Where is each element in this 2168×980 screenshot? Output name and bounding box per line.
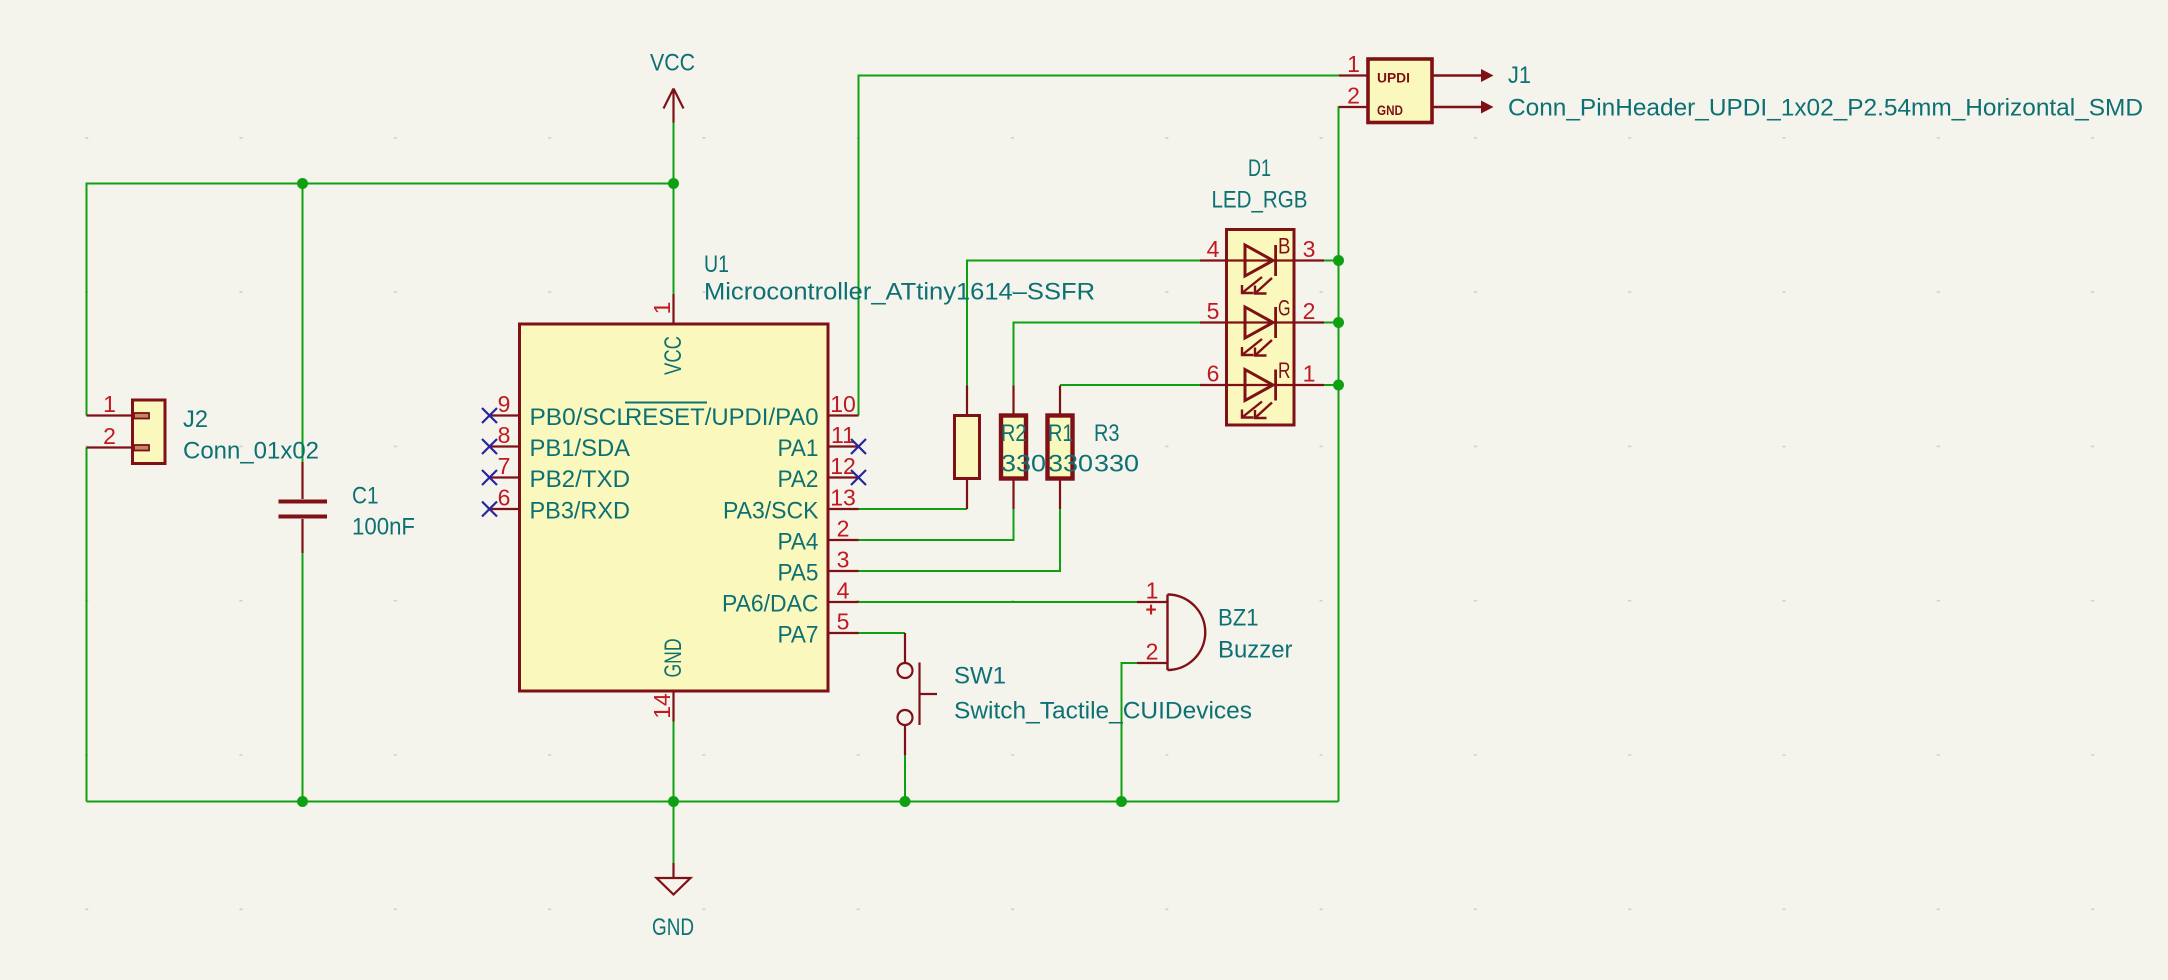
svg-text:G: G (1278, 296, 1291, 321)
svg-text:5: 5 (1207, 298, 1220, 324)
wire U1 pin5 PA7 to SW1 (859, 632, 906, 634)
wire U1 pin14 to GND (673, 722, 675, 802)
svg-text:R: R (1278, 358, 1291, 383)
svg-text:14: 14 (649, 693, 675, 719)
LED D1 body (1227, 230, 1295, 426)
svg-text:VCC: VCC (650, 50, 695, 77)
svg-text:2: 2 (1146, 639, 1159, 665)
svg-text:330: 330 (1048, 451, 1093, 478)
capacitor C1 (279, 462, 328, 553)
wire U1 pin4 PA6/DAC to BZ1 pin1 (859, 601, 1138, 603)
svg-text:R2: R2 (1001, 420, 1027, 447)
svg-text:Conn_01x02: Conn_01x02 (183, 438, 319, 465)
J1 output arrow top (1432, 74, 1481, 76)
junction C1/GND (297, 796, 308, 807)
svg-text:D1: D1 (1248, 155, 1271, 182)
svg-text:9: 9 (498, 391, 511, 417)
J1 pin 1 UPDI (1339, 74, 1368, 76)
J2 pin 1 (87, 414, 133, 416)
U1 pin 14 (GND, bottom) (672, 691, 674, 722)
svg-text:3: 3 (1303, 236, 1316, 262)
svg-text:+: + (1145, 600, 1156, 621)
svg-text:330: 330 (1001, 451, 1046, 478)
svg-text:PB0/SCL: PB0/SCL (530, 404, 631, 431)
no-connect X pin 9 (482, 408, 497, 423)
wire GND bottom horizontal (87, 801, 1339, 803)
wire R1 top to LED pin5 (G row) (1014, 323, 1201, 386)
junction BZ1/GND (1116, 796, 1127, 807)
svg-text:PA7: PA7 (778, 622, 819, 649)
svg-text:U1: U1 (704, 251, 729, 278)
no-connect X pin 8 (482, 439, 497, 454)
svg-text:UPDI: UPDI (1377, 70, 1410, 86)
J1 pin 2 GND (1339, 106, 1368, 108)
svg-text:7: 7 (498, 453, 511, 479)
svg-text:3: 3 (837, 547, 850, 573)
svg-text:J1: J1 (1508, 62, 1531, 89)
svg-text:RESET/UPDI/PA0: RESET/UPDI/PA0 (625, 404, 819, 431)
junction VCC (668, 178, 679, 189)
wire U1 pin2 PA4 to R1 (859, 509, 1014, 540)
svg-text:1: 1 (103, 391, 116, 417)
svg-text:PA5: PA5 (778, 560, 819, 587)
svg-text:GND: GND (652, 914, 694, 941)
junction LED G/GND (1333, 317, 1344, 328)
power symbol VCC (664, 89, 684, 123)
svg-text:330: 330 (1094, 451, 1139, 478)
wire U1 pin10 UPDI up and right to J1 pin1 (859, 76, 1369, 416)
svg-text:13: 13 (830, 485, 856, 511)
svg-text:VCC: VCC (660, 336, 687, 375)
wire R2 top to LED pin4 (B row) (967, 261, 1200, 386)
wire C1 bottom branch (302, 553, 304, 802)
wire LED pin1 to right vertical (1324, 384, 1339, 386)
connector J1 body (1368, 59, 1432, 123)
U1 pin 9 PB0/SCL (490, 414, 520, 416)
no-connect X pin 6 (482, 502, 497, 517)
junction C1/VCC (297, 178, 308, 189)
U1 pin 1 (VCC, top) (672, 294, 674, 324)
buzzer BZ1 (1168, 595, 1206, 671)
svg-text:R1: R1 (1048, 420, 1074, 447)
svg-text:11: 11 (831, 422, 855, 448)
svg-text:8: 8 (498, 422, 511, 448)
svg-text:PB2/TXD: PB2/TXD (530, 466, 631, 493)
U1 pin 10 RESET/UPDI/PA0 (828, 414, 859, 416)
wire SW1 bottom to GND (904, 755, 906, 802)
svg-text:2: 2 (103, 423, 116, 449)
svg-text:SW1: SW1 (954, 663, 1006, 690)
wire right vertical GND (J1 pin2 down) (1339, 107, 1369, 802)
svg-text:Buzzer: Buzzer (1218, 637, 1293, 664)
resistor R1 body (1012, 386, 1014, 416)
wire BZ1 pin2 down to GND (1122, 663, 1138, 802)
svg-text:PA4: PA4 (778, 529, 819, 556)
wire VCC left vertical to J2 pin1 (86, 183, 88, 416)
svg-text:Switch_Tactile_CUIDevices: Switch_Tactile_CUIDevices (954, 698, 1252, 725)
wire R3 top to LED pin6 (R row) (1060, 384, 1200, 386)
switch SW1 (898, 633, 938, 755)
no-connect X pin 7 (482, 470, 497, 485)
svg-text:4: 4 (837, 578, 850, 604)
svg-text:PA6/DAC: PA6/DAC (722, 591, 819, 618)
svg-text:12: 12 (830, 453, 856, 479)
U1 pin 5 PA7 (828, 632, 859, 634)
svg-text:PB1/SDA: PB1/SDA (530, 435, 631, 462)
svg-text:B: B (1278, 234, 1291, 259)
svg-text:10: 10 (830, 391, 856, 417)
wire C1 top branch (302, 184, 304, 463)
svg-text:4: 4 (1207, 236, 1220, 262)
BZ1 pin 1 (1137, 601, 1168, 603)
svg-text:PB3/RXD: PB3/RXD (530, 498, 631, 525)
no-connect X pin 11 (851, 439, 866, 454)
U1 pin 13 PA3/SCK (828, 508, 859, 510)
svg-text:2: 2 (837, 516, 850, 542)
power symbol GND (657, 863, 691, 895)
connector J2 body (133, 400, 166, 464)
U1 pin 11 PA1 (828, 445, 859, 447)
LED D1 element G pins 5/2 (1200, 321, 1324, 323)
LED D1 element B pins 4/3 (1200, 259, 1324, 261)
resistor R2 body (966, 386, 968, 416)
junction LED B/GND (1333, 255, 1344, 266)
wire U1 pin13 PA3/SCK to R2 (859, 508, 968, 510)
junction SW1/GND (900, 796, 911, 807)
svg-text:BZ1: BZ1 (1218, 605, 1259, 632)
U1 pin 6 PB3/RXD (490, 508, 520, 510)
U1 pin 12 PA2 (828, 476, 859, 478)
svg-text:Conn_PinHeader_UPDI_1x02_P2.54: Conn_PinHeader_UPDI_1x02_P2.54mm_Horizon… (1508, 95, 2143, 122)
U1 pin 4 PA6/DAC (828, 601, 859, 603)
svg-text:PA3/SCK: PA3/SCK (723, 498, 819, 525)
wire VCC stem to power symbol (673, 123, 675, 184)
svg-text:GND: GND (660, 639, 687, 678)
svg-text:PA1: PA1 (778, 435, 819, 462)
svg-text:PA2: PA2 (778, 466, 819, 493)
no-connect X pin 12 (851, 470, 866, 485)
svg-text:Microcontroller_ATtiny1614–SSF: Microcontroller_ATtiny1614–SSFR (704, 279, 1095, 306)
svg-text:6: 6 (498, 485, 511, 511)
svg-text:1: 1 (1347, 51, 1360, 77)
J1 output arrow bottom (1432, 106, 1481, 108)
wire GND left vertical from J2 pin2 (86, 448, 88, 802)
svg-text:1: 1 (649, 302, 675, 315)
wire VCC top horizontal (87, 183, 674, 185)
svg-text:5: 5 (837, 609, 850, 635)
junction LED R/GND (1333, 380, 1344, 391)
LED D1 element R pins 6/1 (1200, 384, 1324, 386)
svg-text:J2: J2 (183, 406, 208, 433)
BZ1 pin 2 (1137, 662, 1168, 664)
U1 pin 2 PA4 (828, 539, 859, 541)
U1 pin 7 PB2/TXD (490, 476, 520, 478)
svg-text:2: 2 (1303, 298, 1316, 324)
svg-text:LED_RGB: LED_RGB (1212, 187, 1308, 214)
U1 pin 8 PB1/SDA (490, 445, 520, 447)
wire VCC down to U1 pin 1 (673, 184, 675, 295)
U1 pin 3 PA5 (828, 570, 859, 572)
svg-text:C1: C1 (352, 483, 379, 510)
wire LED pin3 to right vertical (1324, 260, 1339, 262)
resistor R3 body (1059, 386, 1061, 416)
junction GND stem (668, 796, 679, 807)
wire GND symbol stem (673, 802, 675, 864)
svg-text:2: 2 (1347, 83, 1360, 109)
J2 pin 2 (87, 446, 133, 448)
wire U1 pin3 PA5 to R3 (859, 509, 1061, 571)
svg-text:100nF: 100nF (352, 514, 415, 541)
svg-text:R3: R3 (1094, 420, 1120, 447)
RESET overline (625, 402, 707, 404)
svg-text:6: 6 (1207, 361, 1220, 387)
svg-text:GND: GND (1377, 102, 1403, 118)
svg-text:1: 1 (1303, 361, 1316, 387)
microcontroller U1 body (520, 324, 829, 691)
wire LED pin2 to right vertical (1324, 322, 1339, 324)
